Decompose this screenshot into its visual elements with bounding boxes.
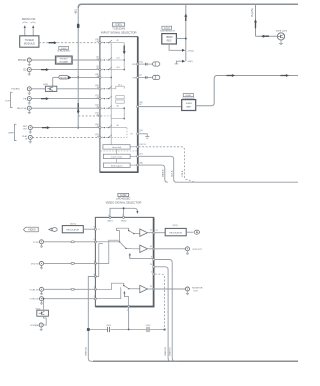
svg-text:78M05: 78M05 [166, 37, 174, 39]
svg-text:47 L: 47 L [117, 57, 121, 59]
node internal bus dots [123, 59, 125, 61]
svg-text:STB B: STB B [182, 170, 184, 177]
pin 13 IC402 video a out [153, 266, 155, 268]
wire eq amp to IC401 pin 3 [72, 59, 99, 61]
svg-text:REC(CH): REC(CH) [17, 108, 27, 110]
capacitor C453 VSS [153, 75, 160, 79]
wire vcr1 in to IC402 [44, 288, 96, 290]
svg-text:(5V2): (5V2) [70, 223, 76, 225]
label IC402 boxed [118, 193, 129, 196]
wire GND pins top link [110, 208, 137, 217]
svg-text:TV IN: TV IN [33, 242, 39, 244]
svg-text:REGULATOR: REGULATOR [66, 229, 79, 232]
svg-text:EQ AMP: EQ AMP [60, 61, 69, 64]
pin 23 IC401 output to surround [137, 106, 139, 108]
wire reg output +5V [169, 44, 182, 50]
wire video bus vertical from pin 6 [88, 277, 95, 362]
IC401 internal switch row 2 [101, 67, 112, 70]
svg-text:40: 40 [117, 125, 119, 127]
svg-text:Latch circuit: Latch circuit [111, 156, 123, 159]
svg-text:VCR: VCR [5, 100, 10, 102]
wire pin10 to vcr out jack [155, 248, 186, 250]
svg-text:REGULATOR: REGULATOR [169, 232, 182, 235]
svg-text:42: 42 [117, 40, 119, 42]
svg-text:+B(1): +B(1) [76, 9, 78, 15]
op-amp A2 in IC402 [140, 245, 148, 252]
svg-text:(16) 5V: (16) 5V [140, 144, 147, 146]
svg-text:NJM78M05DT1: NJM78M05DT1 [160, 31, 176, 33]
capacitor C501 [107, 327, 110, 331]
wire tape play jack to IC401 pin 21 (dashed) [32, 136, 99, 138]
svg-text:Shift register: Shift register [111, 164, 123, 167]
bracket TAPE group [15, 124, 17, 140]
IC401 internal bus B [123, 43, 125, 70]
wire Q502 to vcr2 line [43, 299, 45, 311]
svg-text:INPUT SIGNAL SELECTOR: INPUT SIGNAL SELECTOR [101, 30, 137, 34]
wire B+ drop from top rail [255, 4, 257, 36]
wire tv in to IC402 [44, 241, 96, 243]
IC402 internal input riser 1 [95, 241, 119, 243]
pin 10 IC402 vcr out [153, 248, 155, 250]
wire pin1 dashed down to cap rail [155, 274, 165, 329]
wire shift register to pin 18 [130, 164, 138, 166]
op-amp block surround amp IC601 [182, 100, 196, 111]
bracket VCR group [11, 92, 13, 107]
wire vcr2 in to IC402 [44, 298, 96, 300]
svg-text:VCR3(M): VCR3(M) [30, 325, 39, 327]
svg-text:B+(12V): B+(12V) [252, 8, 254, 17]
op-amp U IC402 video selector body [95, 217, 153, 306]
pin 8 IC402 vcc [94, 228, 96, 230]
pin 12 IC402 vcr2 [94, 298, 96, 300]
svg-text:FROM C30: FROM C30 [22, 17, 36, 21]
wire regulator right to connector [186, 231, 193, 233]
svg-text:SW.B (12V): SW.B (12V) [276, 30, 288, 32]
pin 2 IC401 left y=69.6 [99, 69, 101, 71]
pin 24 IC401 left y=108.2 [99, 107, 101, 109]
IC401 internal switch row 26 [101, 86, 112, 89]
ferrite bead L401 on +B bus [77, 24, 80, 29]
connector arrow from video [49, 228, 52, 231]
wire pin15 to monitor jack [155, 288, 186, 290]
pin 6 IC402 [94, 276, 96, 278]
ground Q901 [279, 42, 283, 44]
svg-text:32: 32 [139, 104, 141, 106]
svg-text:PHONO: PHONO [60, 59, 68, 61]
svg-text:IC452: IC452 [61, 48, 68, 50]
connector VCR OUT jack [186, 247, 190, 251]
IC401 internal bus A [110, 43, 112, 145]
wire cd jack to IC401 pin 2 [31, 69, 99, 71]
svg-text:VCR2 IN: VCR2 IN [30, 299, 39, 301]
connector CD jack [27, 68, 31, 72]
pin 28 IC401 left y=77.4 [99, 76, 101, 78]
ground at pin19 [145, 136, 149, 138]
connector TV IN jack [40, 240, 44, 244]
pin 22 IC401 left y=115.9 [99, 115, 101, 117]
wire pin9 down to bottom rail [155, 260, 178, 362]
svg-text:MUTE: MUTE [60, 77, 67, 79]
connector PHONO jack [27, 58, 31, 62]
flag VIDEO [24, 227, 39, 232]
op-amp A3 in IC402 [140, 285, 148, 292]
IC402 internal switch 3 [112, 283, 124, 285]
wire tv jack to Q451 [31, 88, 45, 90]
connector MONITOR OUT jack [186, 287, 190, 291]
bead on tv line [71, 241, 74, 243]
block TUNER MODULE [20, 36, 39, 47]
wire pin19 to ground [139, 134, 148, 137]
connector VCR PB jack [27, 97, 31, 101]
svg-text:Level shift: Level shift [112, 146, 122, 149]
pin 29 IC401 left y=42.7 [99, 42, 101, 44]
IC401 internal switch row 29 [101, 40, 112, 43]
svg-text:OUT: OUT [23, 129, 28, 131]
signal arrow on tuner line [49, 41, 58, 44]
connector TAPE PLAY jack [28, 135, 32, 139]
wire surround amp output up and right [196, 76, 298, 106]
connector DVD IN jack [40, 261, 44, 265]
signal arrow on pb line [41, 97, 49, 100]
wire dashed stub +B to IC401 pin 22 [78, 115, 99, 117]
svg-text:MODULE: MODULE [24, 41, 35, 45]
svg-text:TUNER: TUNER [25, 38, 34, 42]
IC402 internal switch 1 [117, 228, 129, 230]
label IC501 boxed [162, 26, 172, 29]
connector TV/DBS jack [27, 87, 31, 91]
wire latch to pin 17 [130, 155, 138, 157]
IC402 control arrow 2 [123, 292, 125, 296]
svg-text:VCR OUT: VCR OUT [192, 249, 203, 251]
IC401 internal switch row 3 [101, 57, 112, 60]
svg-text:TV(DBS): TV(DBS) [11, 89, 20, 91]
wire pb jack to IC401 pin 27 [31, 98, 99, 100]
svg-text:IC601: IC601 [185, 95, 192, 97]
node reg rail junction [185, 38, 187, 40]
svg-text:IC501: IC501 [164, 28, 171, 30]
wire +B arrow into rail [176, 61, 182, 64]
svg-text:REG: REG [167, 40, 172, 42]
IC401 internal wire row 22 [101, 115, 111, 117]
pin 16 IC401 data out (dashed) [137, 146, 139, 148]
svg-text:(17): (17) [140, 154, 144, 156]
IC401 internal switch row 20 [101, 125, 112, 128]
svg-text:PLAY: PLAY [22, 135, 28, 138]
svg-text:36: 36 [117, 106, 119, 108]
pin 4 IC402 gnd1 [109, 216, 111, 218]
op-amp A1 in IC402 [140, 229, 148, 236]
pin 7 IC402 gnd2 [123, 216, 125, 218]
signal arrow on reg rail (up) [184, 14, 187, 21]
svg-text:(25): (25) [139, 61, 143, 63]
node cap rail left end [87, 328, 90, 331]
svg-text:OUT: OUT [193, 291, 198, 293]
pin 18 IC401 strobe out [137, 164, 139, 166]
pin 15 IC402 monitor out [153, 288, 155, 290]
pin 1 IC401 VSS [137, 77, 139, 79]
transistor Q502 clamp box [37, 310, 49, 316]
IC402 internal vcr wires [95, 286, 111, 290]
wire 5V reg rail vertical [185, 4, 187, 61]
svg-text:21: 21 [156, 230, 158, 232]
op-amp U IC401 input selector body [100, 37, 138, 173]
wire Q901 emitter down [280, 40, 282, 43]
svg-text:NJM2068DD: NJM2068DD [58, 51, 71, 53]
svg-text:SURR: SURR [186, 103, 193, 105]
connector VCR3 jack [39, 323, 43, 327]
wire regulator to IC402 pin 8 [83, 228, 95, 230]
wire tuner to IC401 pin 29 (dashed) [39, 42, 100, 44]
IC402 internal staircase dvd [95, 240, 118, 263]
svg-text:VSS: VSS [132, 77, 136, 79]
pin 2 IC402 bottom [128, 305, 130, 307]
svg-text:DVD IN: DVD IN [31, 263, 39, 265]
wire tape rec jack to IC401 pin 20 [32, 127, 99, 129]
signal arrow to transistor (left) [261, 35, 269, 38]
label IC401 boxed [112, 23, 124, 26]
label IC452 boxed [59, 46, 69, 49]
svg-text:DATA B: DATA B [161, 169, 164, 177]
brace under FROM C30 [23, 22, 28, 23]
node +B / rec line junction [77, 107, 79, 109]
svg-text:VIDEO B: VIDEO B [165, 347, 167, 356]
transistor Q451 muting box [45, 86, 56, 91]
wire +B left bus vertical [77, 7, 79, 128]
wire vcr rec jack to IC401 pin 24 [31, 107, 99, 109]
svg-text:CLK B: CLK B [171, 170, 173, 177]
svg-text:VCR1 IN: VCR1 IN [30, 289, 39, 291]
IC401 internal switch row 24 [101, 106, 112, 109]
pin 14 IC402 vcr1 [94, 288, 96, 290]
IC401 internal switch row 21 [101, 135, 112, 138]
svg-text:VIDEO C: VIDEO C [169, 347, 171, 356]
wire IC401 to surround amp [139, 106, 182, 108]
bead on vcr1 line [71, 288, 74, 290]
wire Q451 to IC401 pin 26 [57, 88, 100, 90]
wire pin13 down to bottom rail [155, 267, 173, 362]
wire capacitor rail [88, 329, 164, 331]
node cap rail right end [164, 328, 166, 330]
bead on dvd line [71, 262, 74, 264]
svg-text:GND1: GND1 [107, 221, 113, 223]
connector VCR1 IN jack [40, 287, 44, 291]
connector arrow out [194, 230, 199, 234]
svg-text:VIDEO A: VIDEO A [84, 347, 87, 356]
pin 20 IC401 left y=127.6 [99, 127, 101, 129]
pin 5 IC402 tv [94, 241, 96, 243]
IC402 internal left riser [95, 244, 98, 277]
signal arrow on +B bus (down) [77, 103, 80, 114]
wire mute line to IC401 pin 28 [72, 76, 100, 78]
wire Q502 to vcr3 jack [43, 316, 46, 325]
node gnd link junction [123, 207, 125, 209]
block 78M05 regulator [162, 34, 177, 44]
svg-text:VIDEO SIGNAL SELECTOR: VIDEO SIGNAL SELECTOR [105, 200, 142, 204]
flag MUTE label [59, 76, 68, 79]
signal arrow on cd line [41, 68, 49, 71]
capacitor C502 [146, 327, 149, 331]
block level shift in IC401 [103, 145, 130, 149]
wire pin2 to cap rail [128, 307, 130, 329]
svg-text:CD: CD [23, 70, 27, 72]
pin 25 IC401 VDD [137, 63, 139, 65]
block regulator left [62, 226, 83, 233]
svg-text:TAPE: TAPE [8, 132, 14, 135]
svg-text:MONITOR: MONITOR [192, 288, 203, 290]
block shift register in IC401 [103, 163, 130, 167]
dashed separator in IC401 [101, 150, 138, 152]
connector TAPE REC jack [28, 126, 32, 130]
svg-text:(1): (1) [139, 75, 142, 77]
wire pin11 to regulator right [155, 232, 165, 234]
op-amp block PHONO EQ AMP [55, 56, 72, 64]
pin 9 IC402 video b out [153, 259, 155, 261]
wires between latch blocks [116, 149, 118, 154]
svg-text:IC401: IC401 [115, 24, 122, 27]
svg-text:GND2: GND2 [121, 221, 127, 223]
label IC601 boxed [183, 94, 193, 97]
svg-text:24 L: 24 L [118, 84, 122, 86]
svg-text:45 L: 45 L [117, 67, 121, 69]
connector VCR REC jack [27, 106, 31, 110]
svg-text:Q451: Q451 [43, 84, 49, 86]
capacitor C452 VDD [153, 62, 160, 66]
pin 3 IC401 left y=60.0 [99, 59, 101, 61]
signal arrow surround out 1 [227, 74, 236, 77]
node +B / mute line junction [77, 76, 79, 78]
pin 17 IC401 clock out [137, 155, 139, 157]
IC401 internal switch row 27 [101, 96, 112, 99]
wire VDD decoupling [139, 63, 153, 65]
svg-text:29: 29 [131, 134, 133, 136]
pin 1 IC402 dashed out [153, 273, 155, 275]
pin 3 IC402 dvd [94, 262, 96, 264]
pin 19 IC401 to ground [137, 133, 139, 135]
signal arrow on B+ drop (up) [254, 19, 257, 28]
wire B+ to switch transistor [256, 35, 278, 37]
wire +B top rail [78, 4, 298, 8]
wire level shift to pin 16 [130, 146, 138, 148]
wire reg input from rail [176, 38, 185, 40]
svg-text:+5V(1): +5V(1) [187, 50, 194, 52]
wire VSS decoupling [139, 77, 153, 79]
pin 21 IC401 left y=137.4 [99, 136, 101, 138]
block latch circuit in IC401 [103, 154, 130, 158]
svg-text:AMP: AMP [186, 106, 191, 109]
signal arrow on tape rec line [42, 126, 50, 129]
wire tuner output arrows [24, 28, 26, 36]
transistor Q901 switch [277, 33, 284, 40]
IC402 control arrow 1 [129, 254, 131, 258]
svg-text:PHONO: PHONO [18, 60, 27, 62]
wire dvd in to IC402 [44, 262, 96, 264]
IC401 internal wire row 28 [101, 76, 111, 78]
block regulator right [165, 228, 186, 235]
pin 26 IC401 left y=88.8 [99, 88, 101, 90]
pin 27 IC401 left y=98.6 [99, 98, 101, 100]
wire phono jack to eq amp [31, 59, 55, 61]
svg-text:+B(2): +B(2) [187, 61, 193, 63]
wire mute branch to Q451 [52, 77, 54, 86]
signal arrow surround out 2 [281, 74, 290, 77]
pin 11 IC402 out1 [153, 232, 155, 234]
connector VCR2 IN jack [40, 297, 44, 301]
svg-text:(5V1): (5V1) [173, 225, 179, 227]
svg-text:VIDEO: VIDEO [28, 229, 36, 232]
wire bottom rail [93, 360, 298, 362]
svg-text:(18): (18) [140, 163, 144, 165]
node +B bus end junction [77, 127, 79, 129]
IC401 internal signal arrow down [123, 46, 126, 55]
